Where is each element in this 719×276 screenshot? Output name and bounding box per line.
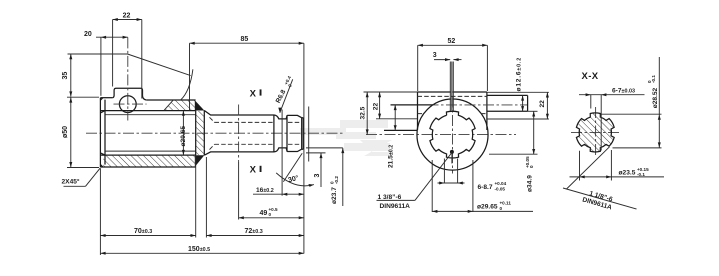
dimension 6-8.7 spline way width [438,159,507,192]
svg-text:20: 20 [84,31,92,38]
dimension 3 groove land [306,153,326,187]
node X-X spline section [576,113,614,152]
node right ear hole projection [487,95,528,111]
node hole crosshair [114,103,147,105]
dimension 52 [418,38,488,91]
svg-text:21.5±0.2: 21.5±0.2 [387,145,394,168]
svg-text:-0.05: -0.05 [495,187,506,192]
svg-text:1 3/8”-6: 1 3/8”-6 [378,194,402,201]
svg-text:+0.15: +0.15 [637,167,649,172]
wire 85 left extension [189,43,191,110]
node middle block outline [418,92,487,130]
dimension 70 [100,156,195,255]
node X-X centerlines [571,131,622,133]
wire extension at groove 16 dim [281,110,283,196]
node chamfer wedge top right [195,100,205,110]
dimension 30 degree groove angle [276,153,314,187]
svg-text:+0.04: +0.04 [495,181,507,186]
svg-text:85: 85 [241,36,249,43]
svg-text:-0.2: -0.2 [334,176,339,184]
dimension diameter 34.9 [489,111,538,192]
dimension 72 [206,157,304,238]
dimension 16 [253,187,304,196]
dimension 6-7 tooth width [579,88,645,151]
svg-text:22: 22 [539,100,546,108]
node hatch end wall [196,111,204,155]
svg-text:0: 0 [500,206,503,211]
svg-text:+0.5: +0.5 [269,207,279,212]
svg-text:-0.1: -0.1 [637,172,645,177]
node pin hole dot [450,150,454,154]
node shaft hidden spline root lines [215,121,300,123]
wire leader 35 to surface [128,54,191,76]
svg-text:ø12.6±0.2: ø12.6±0.2 [515,57,522,92]
dimension diameter 29.65 bore [180,111,187,156]
svg-text:ø34.9: ø34.9 [527,175,534,192]
node body outline left view [100,88,204,167]
svg-text:DIN9611A: DIN9611A [380,203,411,210]
watermark [300,120,392,156]
wire right face extension line [303,43,305,253]
wire cutting plane / 49 extension [238,105,240,163]
svg-text:X: X [250,88,257,99]
dimension 3 slot width [433,52,462,61]
dimension 22 right [487,92,549,119]
svg-text:32.5: 32.5 [359,106,366,119]
node hatch bottom wall [103,156,196,167]
svg-text:ø23.5: ø23.5 [619,170,636,177]
svg-text:22: 22 [373,103,380,111]
node shaft outline [204,111,303,156]
svg-text:49: 49 [260,210,268,217]
label R6.8 radius callout [275,75,293,113]
dimension 35 [62,54,128,97]
dimension diameter 28.52 [601,57,661,148]
node hidden lines in block [418,95,487,97]
svg-text:2X45°: 2X45° [62,178,80,186]
svg-text:ø50: ø50 [62,126,69,138]
svg-text:70±0.3: 70±0.3 [134,228,152,235]
svg-text:0: 0 [529,165,534,168]
dimension 22 boss [113,13,142,99]
svg-text:22: 22 [123,13,131,20]
wire mystery extension right of face [308,107,310,162]
svg-text:35: 35 [62,72,69,80]
node flange circle [417,99,488,170]
svg-text:150±0.5: 150±0.5 [188,246,210,253]
node chamfer wedge bottom right [195,155,205,167]
svg-text:+0.11: +0.11 [500,201,512,206]
node slit slot [450,62,453,111]
label 1 3/8-6 DIN9611A [377,153,452,210]
svg-text:72±0.3: 72±0.3 [245,228,263,235]
svg-text:0: 0 [269,212,272,217]
dimension diameter 50 [62,97,99,167]
dimension 21.5 [387,105,396,168]
svg-text:6-7±0.03: 6-7±0.03 [612,88,635,95]
dimension diameter 23.7 groove [306,148,344,206]
wire break arc [180,69,193,100]
node middle view centerlines [366,134,516,136]
svg-text:6-8.7: 6-8.7 [478,184,493,191]
svg-text:16±0.2: 16±0.2 [256,187,274,194]
hole circle on boss [119,96,136,113]
dimension 85 [190,36,304,45]
label 1 1/8-6 DIN9611A [563,147,637,212]
svg-text:3: 3 [314,174,321,178]
svg-text:52: 52 [448,38,456,45]
svg-text:ø28.52: ø28.52 [652,87,659,108]
dimension 150 overall [100,246,304,255]
wire centerline main axis left view [86,132,345,134]
dimension diameter 29.65 bore middle [432,160,533,213]
svg-text:ø29.65: ø29.65 [477,204,498,211]
svg-text:ø29.65: ø29.65 [180,126,187,147]
node left stub lines [391,104,434,106]
svg-text:3: 3 [433,52,437,59]
node hatch top right wall [164,100,195,110]
dimension diameter 23.5 [570,150,665,181]
svg-text:ø23.7: ø23.7 [331,187,338,204]
svg-text:X: X [250,165,257,176]
dimension 20 hole position [84,31,128,96]
svg-text:-0.1: -0.1 [651,75,656,83]
dimension 32.5 [359,92,417,135]
svg-text:X-X: X-X [582,71,599,82]
dimension 49 [239,207,304,220]
dimension 22 left [373,92,418,119]
dimension diameter 12.6 [515,57,524,111]
label 2X45 chamfer [62,168,101,187]
node internal spline bore [430,111,475,158]
svg-text:30°: 30° [287,174,299,184]
